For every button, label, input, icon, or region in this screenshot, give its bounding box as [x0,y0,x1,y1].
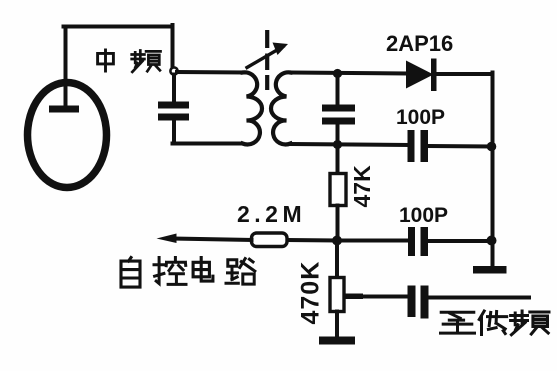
svg-text:100P: 100P [399,204,448,227]
resistor R1 47K body [330,174,346,206]
tube V1 envelope [28,83,107,188]
wire C3 to right rail [428,144,493,149]
wire AGC node down to R3 [335,241,339,279]
capacitor C4 100P plate left [408,227,415,256]
wire C4 to right rail [428,239,493,243]
wire secondary top rail [291,73,407,74]
tube plate [49,106,79,113]
transformer core (dashed, adjustable) [265,30,269,90]
svg-text:2.2M: 2.2M [237,201,306,227]
ground right rail [473,266,507,274]
wire R1 to AGC node [336,206,340,241]
inductor L2 secondary winding [271,72,291,144]
svg-text:100P: 100P [396,106,445,129]
label 至低频 [441,311,550,335]
wire tap stub from R3 [344,294,363,300]
wire stub to C5 [361,295,408,299]
wire capacitor to bottom rail [172,120,176,144]
diode D1 2AP16 [406,61,434,89]
capacitor C2 secondary tank plate bottom [322,118,355,125]
junction right rail at C3 [487,142,497,152]
capacitor C3 100P plate left [408,130,415,162]
wire plate lead up [64,27,68,108]
capacitor C5 coupling plate left [408,286,416,318]
wire AGC node right to C4 [337,239,408,243]
ground under R3 [319,337,355,345]
wire C5 to audio output [429,296,530,300]
wire secondary bottom rail [291,144,408,145]
svg-text:470K: 470K [297,261,325,325]
node terminal circle [170,67,177,74]
wire down to secondary tank capacitor [336,74,340,106]
wire R3 down to ground [335,312,339,338]
capacitor C2 secondary tank plate top [322,105,355,112]
capacitor C3 100P plate right [421,130,429,162]
junction bottom of C2 [333,140,342,149]
wire top horizontal [64,25,173,29]
svg-text:47K: 47K [349,165,375,208]
arrowhead to AGC circuit [157,234,177,244]
capacitor C1 primary tank plate bottom [158,114,189,121]
wire node to primary coil [177,70,245,75]
adjustment arrow across core [247,47,283,68]
resistor R2 2.2M body [252,233,288,247]
junction AGC node [332,236,342,246]
wire down to IF node [171,25,175,68]
wire AGC rail left [287,238,337,243]
junction top of C2 [333,69,342,78]
wire capacitor to secondary bottom rail [336,124,340,144]
resistor R3 470K body [330,278,344,312]
wire primary bottom rail [173,142,242,146]
svg-text:2AP16: 2AP16 [386,31,453,56]
capacitor C4 100P plate right [421,227,429,256]
junction right rail at C4 [487,236,497,246]
label 中频 [98,50,161,72]
wire secondary node down to R1 [336,145,340,175]
inductor L1 primary winding [243,72,263,144]
wire node down to tank capacitor [172,75,176,104]
label 自控电路 [121,258,255,288]
wire right vertical rail [491,73,495,267]
capacitor C1 primary tank plate top [158,102,189,109]
wire diode cathode to right rail corner [436,72,493,76]
wire 2.2M to arrow [173,239,252,241]
capacitor C5 coupling plate right [421,286,429,319]
